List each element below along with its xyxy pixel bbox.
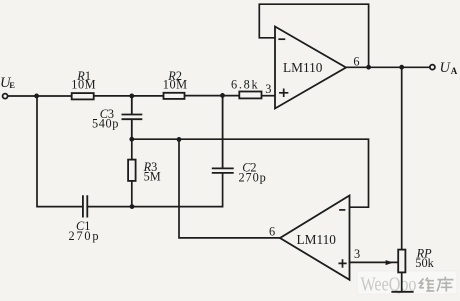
wire right riser to RP bbox=[401, 67, 403, 249]
svg-text:270p: 270p bbox=[239, 170, 267, 184]
svg-text:LM110: LM110 bbox=[283, 60, 323, 75]
input terminal circle bbox=[3, 94, 8, 99]
wire C1 to C2 bottom bbox=[87, 174, 222, 207]
svg-text:5M: 5M bbox=[144, 170, 161, 184]
resistor 6.8k bbox=[239, 92, 261, 99]
svg-text:LM110: LM110 bbox=[297, 232, 337, 247]
op-amp U1 plus sign bbox=[280, 89, 288, 96]
node D (feedback/output junction) bbox=[366, 65, 371, 70]
svg-text:50k: 50k bbox=[415, 256, 434, 270]
svg-text:3: 3 bbox=[265, 82, 271, 96]
svg-text:270p: 270p bbox=[69, 229, 101, 243]
node B (R1/C3 junction) bbox=[129, 94, 134, 99]
wire input to R1 bbox=[8, 95, 72, 97]
svg-text:540p: 540p bbox=[92, 117, 119, 131]
wire R2 to 6.8k bbox=[185, 95, 240, 97]
svg-text:U: U bbox=[440, 60, 452, 76]
capacitor C2 bbox=[213, 96, 233, 173]
op-amp U2 LM110 triangle bbox=[280, 196, 350, 280]
output terminal circle bbox=[430, 65, 435, 70]
watermark bbox=[357, 271, 457, 296]
svg-text:10M: 10M bbox=[163, 78, 188, 92]
label C3 value bbox=[92, 107, 119, 131]
op-amp U2 plus sign bbox=[339, 260, 346, 267]
svg-text:10M: 10M bbox=[71, 78, 96, 92]
resistor R1 bbox=[72, 93, 94, 99]
svg-text:6: 6 bbox=[353, 54, 359, 68]
resistor R2 bbox=[164, 93, 185, 99]
resistor R3 bbox=[131, 139, 133, 159]
wire U2 output to riser bbox=[179, 139, 280, 238]
wire mid rail y=139 to U2 minus bbox=[132, 139, 369, 207]
label R3 value bbox=[143, 160, 161, 184]
label C1 value bbox=[69, 219, 101, 243]
wire R1 to R2 bbox=[94, 95, 164, 97]
svg-text:E: E bbox=[9, 80, 15, 90]
label UA bbox=[440, 60, 458, 76]
svg-text:A: A bbox=[451, 66, 458, 76]
svg-text:6: 6 bbox=[269, 224, 275, 238]
node E (output/RP junction) bbox=[399, 65, 404, 70]
wire U1 output to UA bbox=[346, 66, 430, 68]
RP bottom end bar bbox=[392, 291, 412, 293]
node H (R3 bottom junction) bbox=[130, 204, 135, 209]
label RP value bbox=[415, 247, 434, 271]
label R1 value bbox=[71, 69, 96, 91]
node A (input junction) bbox=[34, 94, 39, 99]
wire left branch down to C1 bbox=[37, 96, 83, 207]
wire RP bottom bbox=[401, 272, 403, 291]
RP wiper arrowhead bbox=[386, 260, 394, 265]
capacitor C3 bbox=[122, 96, 141, 139]
node G (riser junction) bbox=[177, 137, 182, 142]
op-amp U2 minus sign bbox=[340, 209, 345, 211]
potentiometer RP bbox=[398, 250, 405, 273]
node C (R2/C2 junction) bbox=[220, 93, 225, 98]
wire U1 feedback loop bbox=[259, 4, 368, 67]
wire U2 pin3 to RP wiper bbox=[350, 261, 399, 263]
capacitor C1 bbox=[83, 196, 87, 216]
svg-text:6.8k: 6.8k bbox=[231, 77, 259, 91]
label UE bbox=[0, 75, 15, 91]
op-amp U1 LM110 triangle bbox=[275, 27, 346, 109]
svg-text:3: 3 bbox=[354, 247, 360, 261]
wire 6.8k to op-amp U1 pin 3 bbox=[262, 95, 276, 97]
label C2 value bbox=[239, 160, 267, 184]
node F (C3/R3 junction) bbox=[129, 137, 134, 142]
op-amp U1 minus sign bbox=[279, 38, 284, 40]
label R2 value bbox=[163, 69, 188, 91]
